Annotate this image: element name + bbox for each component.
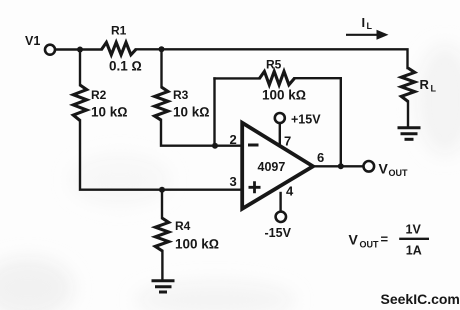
svg-text:4: 4 [286, 184, 294, 199]
svg-text:R5: R5 [266, 58, 282, 72]
svg-text:SeekIC.com: SeekIC.com [381, 291, 460, 307]
svg-text:V: V [349, 232, 359, 248]
svg-text:V1: V1 [25, 34, 40, 48]
svg-text:R1: R1 [111, 24, 127, 38]
svg-text:R2: R2 [91, 88, 107, 102]
svg-text:OUT: OUT [360, 240, 380, 250]
svg-text:=: = [381, 232, 389, 247]
svg-text:0.1 Ω: 0.1 Ω [109, 59, 142, 74]
svg-text:10 kΩ: 10 kΩ [91, 105, 128, 120]
svg-text:3: 3 [230, 174, 237, 189]
svg-text:R3: R3 [173, 88, 189, 102]
svg-text:L: L [431, 84, 437, 94]
svg-text:4097: 4097 [258, 160, 286, 174]
svg-text:2: 2 [230, 132, 237, 147]
svg-text:+15V: +15V [291, 113, 321, 127]
svg-text:R: R [420, 77, 430, 92]
svg-text:-15V: -15V [265, 226, 292, 240]
svg-text:R4: R4 [175, 219, 191, 233]
svg-text:10 kΩ: 10 kΩ [173, 105, 210, 120]
svg-text:1V: 1V [406, 223, 422, 237]
svg-text:1A: 1A [406, 244, 422, 258]
svg-text:100 kΩ: 100 kΩ [262, 88, 306, 103]
svg-text:OUT: OUT [389, 168, 409, 178]
svg-text:6: 6 [317, 150, 324, 165]
svg-text:V: V [379, 161, 389, 177]
svg-text:100 kΩ: 100 kΩ [175, 237, 219, 252]
svg-text:L: L [367, 21, 373, 31]
svg-text:I: I [362, 15, 366, 30]
svg-text:7: 7 [284, 134, 291, 149]
